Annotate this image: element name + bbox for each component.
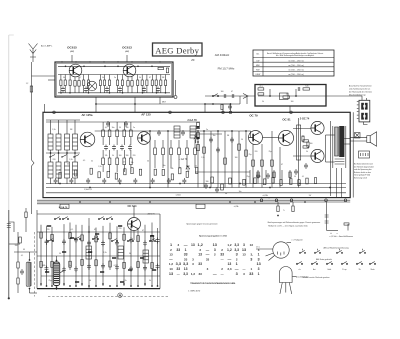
svg-text:13: 13 (198, 253, 202, 257)
svg-text:—: — (206, 253, 210, 257)
svg-text:1,5k: 1,5k (201, 157, 204, 159)
svg-text:47: 47 (231, 91, 233, 93)
svg-text:68k: 68k (43, 265, 46, 267)
svg-text:100: 100 (310, 143, 313, 145)
svg-text:(Buchsenbelegung): (Buchsenbelegung) (349, 95, 366, 97)
svg-text:0,1: 0,1 (302, 176, 304, 178)
svg-text:5k: 5k (91, 160, 93, 162)
svg-text:50: 50 (241, 139, 243, 141)
svg-text:1,5k: 1,5k (103, 252, 106, 254)
svg-text:e ≈ Farbpunkt: e ≈ Farbpunkt (292, 238, 304, 241)
svg-text:1: 1 (185, 248, 187, 252)
svg-text:1: 1 (236, 262, 238, 266)
svg-text:Skala: Skala (371, 269, 375, 271)
svg-text:13: 13 (169, 272, 173, 276)
svg-text:UKW: UKW (255, 74, 260, 76)
svg-text:—: — (213, 272, 217, 276)
svg-text:e b c: e b c (256, 247, 260, 249)
svg-text:2n: 2n (114, 77, 116, 79)
svg-text:50: 50 (302, 136, 304, 138)
svg-text:1,5k: 1,5k (69, 159, 72, 161)
svg-text:3: 3 (250, 257, 252, 261)
svg-text:1,5k: 1,5k (52, 129, 55, 131)
svg-text:13: 13 (184, 267, 188, 271)
svg-text:OC613: OC613 (122, 46, 132, 50)
svg-text:10n: 10n (112, 127, 115, 129)
svg-text:—: — (221, 272, 224, 276)
svg-text:13: 13 (169, 253, 173, 257)
svg-text:—: — (221, 257, 224, 261)
svg-text:25µ: 25µ (247, 176, 250, 178)
svg-text:50: 50 (59, 253, 61, 255)
svg-text:0,1: 0,1 (71, 229, 74, 231)
svg-text:13: 13 (213, 243, 217, 247)
svg-text:10n: 10n (163, 165, 166, 167)
svg-text:13: 13 (191, 243, 195, 247)
svg-text:der Rückwand des Gerätes: der Rückwand des Gerätes (349, 91, 372, 94)
svg-text:1,5kΩ 0,1: 1,5kΩ 0,1 (84, 189, 92, 191)
svg-text:13: 13 (242, 248, 246, 252)
svg-text:3: 3 (243, 243, 245, 247)
svg-text:Gleichspannungen mit Röhrenvol: Gleichspannungen mit Röhrenvoltmeter geg… (267, 221, 321, 224)
svg-text:3: 3 (258, 257, 260, 261)
svg-text:3: 3 (258, 267, 260, 271)
svg-text:68k: 68k (171, 168, 174, 170)
svg-text:5k: 5k (149, 280, 151, 282)
svg-text:0,1: 0,1 (195, 166, 197, 168)
svg-text:Bei Batteriebetrieb wird: Bei Batteriebetrieb wird (354, 163, 373, 166)
svg-text:—: — (177, 272, 180, 276)
svg-text:3,3: 3,3 (183, 262, 188, 266)
svg-text:FM 10,7 MHz: FM 10,7 MHz (218, 66, 235, 70)
svg-text:3,3: 3,3 (234, 248, 239, 252)
svg-text:71,5: 71,5 (259, 86, 262, 88)
svg-text:330: 330 (126, 127, 129, 129)
svg-text:3: 3 (214, 248, 216, 252)
svg-text:25µ: 25µ (249, 154, 252, 156)
svg-text:—: — (235, 267, 239, 271)
svg-text:5k: 5k (139, 77, 141, 79)
svg-text:4,7: 4,7 (123, 162, 125, 164)
svg-text:AM 430kHz: AM 430kHz (215, 53, 230, 57)
svg-text:AF 125a: AF 125a (81, 113, 92, 117)
svg-text:AEG Derby: AEG Derby (155, 46, 199, 56)
svg-text:Meßwerte ± 20% — ohne Signal,: Meßwerte ± 20% — ohne Signal, Lautstärke… (268, 224, 307, 227)
svg-text:1,2: 1,2 (169, 262, 174, 266)
svg-text:4,7: 4,7 (59, 170, 61, 172)
svg-text:1,2: 1,2 (198, 243, 203, 247)
svg-text:25µ: 25µ (48, 280, 51, 282)
svg-text:33: 33 (206, 257, 210, 261)
svg-text:3,3: 3,3 (227, 267, 232, 271)
svg-text:1: 1 (258, 253, 260, 257)
svg-text:ZF: ZF (191, 58, 195, 62)
svg-text:0,5: 0,5 (105, 127, 107, 129)
svg-text:1,2: 1,2 (26, 83, 29, 85)
svg-text:1,5kΩ: 1,5kΩ (176, 195, 182, 197)
svg-text:3,3: 3,3 (234, 243, 239, 247)
svg-text:220: 220 (133, 155, 136, 157)
svg-text:12k: 12k (187, 170, 190, 172)
svg-text:Spannungen gegen Chassis gemes: Spannungen gegen Chassis gemessen (186, 223, 217, 225)
svg-text:220: 220 (119, 228, 122, 230)
svg-text:5k: 5k (129, 253, 131, 255)
svg-text:MW: MW (256, 65, 260, 67)
svg-text:m (150 – 260 m): m (150 – 260 m) (288, 65, 304, 67)
svg-text:5k: 5k (306, 151, 308, 153)
svg-text:47: 47 (149, 77, 151, 79)
svg-text:2n: 2n (133, 127, 135, 129)
svg-text:AM-Taste gedrückt: AM-Taste gedrückt (316, 258, 332, 261)
svg-text:220: 220 (53, 159, 56, 161)
svg-text:33: 33 (176, 267, 180, 271)
svg-text:50: 50 (67, 164, 69, 166)
svg-text:3,3: 3,3 (176, 262, 181, 266)
svg-text:1: 1 (170, 243, 172, 247)
svg-text:13: 13 (242, 253, 246, 257)
svg-text:ALLG. AMPL.: ALLG. AMPL. (41, 45, 53, 48)
svg-text:—: — (228, 257, 232, 261)
svg-text:50: 50 (147, 160, 149, 162)
svg-text:13: 13 (169, 267, 173, 271)
svg-text:2-GA 78: 2-GA 78 (187, 119, 197, 122)
svg-text:Gerät gelegt (9 Volt): Gerät gelegt (9 Volt) (354, 174, 370, 177)
svg-text:50: 50 (294, 176, 296, 178)
svg-text:LW: LW (256, 60, 259, 62)
svg-text:m (150 – 260 m): m (150 – 260 m) (288, 70, 304, 72)
svg-text:50: 50 (119, 127, 121, 129)
svg-text:OC 81: OC 81 (282, 118, 291, 122)
svg-text:13: 13 (228, 262, 232, 266)
svg-text:3: 3 (236, 272, 238, 276)
svg-text:50: 50 (89, 280, 91, 282)
svg-text:220: 220 (255, 151, 258, 153)
svg-text:AF 125: AF 125 (141, 113, 151, 117)
svg-text:33: 33 (220, 253, 224, 257)
svg-text:1,2: 1,2 (191, 272, 196, 276)
svg-text:100: 100 (235, 157, 238, 159)
svg-text:25µ: 25µ (269, 151, 272, 153)
svg-text:2n: 2n (206, 129, 208, 131)
svg-text:12k: 12k (131, 162, 134, 164)
svg-text:und die Spannung der: und die Spannung der (354, 169, 372, 171)
svg-text:5k: 5k (262, 101, 264, 103)
svg-text:Batterie direkt an das: Batterie direkt an das (354, 171, 371, 174)
svg-text:a b: a b (298, 269, 300, 271)
svg-text:100: 100 (119, 155, 122, 157)
svg-text:Ber.: Ber. (256, 53, 260, 56)
svg-text:c: c (252, 255, 253, 257)
svg-text:330: 330 (15, 245, 18, 247)
svg-text:m (150 – 260 m): m (150 – 260 m) (288, 74, 304, 76)
svg-text:0,5: 0,5 (83, 160, 85, 162)
svg-text:47: 47 (281, 164, 283, 166)
svg-text:≈0,2A: ≈0,2A (234, 205, 239, 208)
svg-text:Sicherung 0,2 A: Sicherung 0,2 A (354, 177, 367, 180)
svg-text:—: — (184, 243, 188, 247)
svg-text:0,5: 0,5 (114, 265, 117, 267)
svg-text:2.Lspr: 2.Lspr (342, 269, 347, 271)
svg-text:220: 220 (47, 229, 50, 231)
svg-text:OC 79: OC 79 (249, 114, 258, 118)
svg-text:(AM): (AM) (125, 50, 129, 53)
svg-text:33: 33 (176, 248, 180, 252)
svg-text:33: 33 (198, 262, 202, 266)
svg-text:3: 3 (236, 253, 238, 257)
svg-text:33: 33 (184, 253, 188, 257)
svg-text:100: 100 (291, 101, 294, 103)
svg-text:der Netzteil abgeschaltet: der Netzteil abgeschaltet (354, 165, 374, 168)
svg-text:3,3: 3,3 (183, 272, 188, 276)
svg-text:(AM): (AM) (70, 50, 74, 53)
svg-text:5k: 5k (112, 155, 114, 157)
svg-text:330: 330 (126, 155, 129, 157)
svg-text:1,2: 1,2 (227, 248, 232, 252)
svg-text:0,1: 0,1 (21, 255, 23, 257)
svg-text:13: 13 (250, 243, 254, 247)
svg-text:+ 4,5 Volt — Anschlußklemme: + 4,5 Volt — Anschlußklemme (329, 235, 353, 238)
svg-text:47: 47 (94, 229, 96, 231)
svg-text:1,5k: 1,5k (98, 166, 101, 168)
svg-text:Schalter von der Rückseite ges: Schalter von der Rückseite gesehen (302, 276, 329, 279)
svg-text:Erdb.: Erdb. (328, 269, 332, 271)
svg-text:TRANSISTOR-TAUSCHSPANNUNGEN G: TRANSISTOR-TAUSCHSPANNUNGEN GEM. (190, 282, 236, 285)
svg-text:und Zweitlautsprecher an: und Zweitlautsprecher an (349, 88, 370, 91)
svg-text:0,5: 0,5 (259, 176, 261, 178)
svg-text:1,2: 1,2 (227, 243, 232, 247)
svg-text:5k: 5k (102, 77, 104, 79)
svg-text:12k: 12k (105, 155, 108, 157)
svg-text:100: 100 (221, 91, 224, 93)
svg-text:AM auf Skalenlampenfassung: AM auf Skalenlampenfassung (323, 246, 348, 249)
svg-text:10n: 10n (213, 135, 216, 137)
svg-text:8,2k: 8,2k (305, 85, 308, 87)
svg-text:KW: KW (256, 70, 259, 72)
svg-text:↳ GMV 4070: ↳ GMV 4070 (188, 290, 201, 293)
svg-text:330: 330 (206, 181, 209, 183)
svg-text:OC615: OC615 (67, 46, 77, 50)
svg-text:2n: 2n (69, 265, 71, 267)
svg-text:13: 13 (256, 262, 260, 266)
svg-text:≈ GA 70: ≈ GA 70 (179, 158, 188, 161)
svg-text:47: 47 (142, 230, 144, 232)
svg-text:m (150 – 260 m): m (150 – 260 m) (288, 60, 304, 62)
svg-text:Spannungsangaben in Volt: Spannungsangaben in Volt (199, 235, 227, 238)
svg-text:33: 33 (184, 257, 188, 261)
svg-text:33: 33 (249, 272, 253, 276)
svg-text:—: — (243, 267, 246, 271)
svg-text:1: 1 (258, 272, 260, 276)
svg-text:0,1: 0,1 (179, 167, 181, 169)
svg-text:2-OC 74: 2-OC 74 (300, 118, 310, 121)
svg-text:OC 614: OC 614 (128, 204, 137, 208)
svg-text:Anschluß für Tonabnehmer: Anschluß für Tonabnehmer (349, 85, 372, 88)
svg-text:5k: 5k (63, 77, 65, 79)
svg-text:33: 33 (199, 272, 203, 276)
